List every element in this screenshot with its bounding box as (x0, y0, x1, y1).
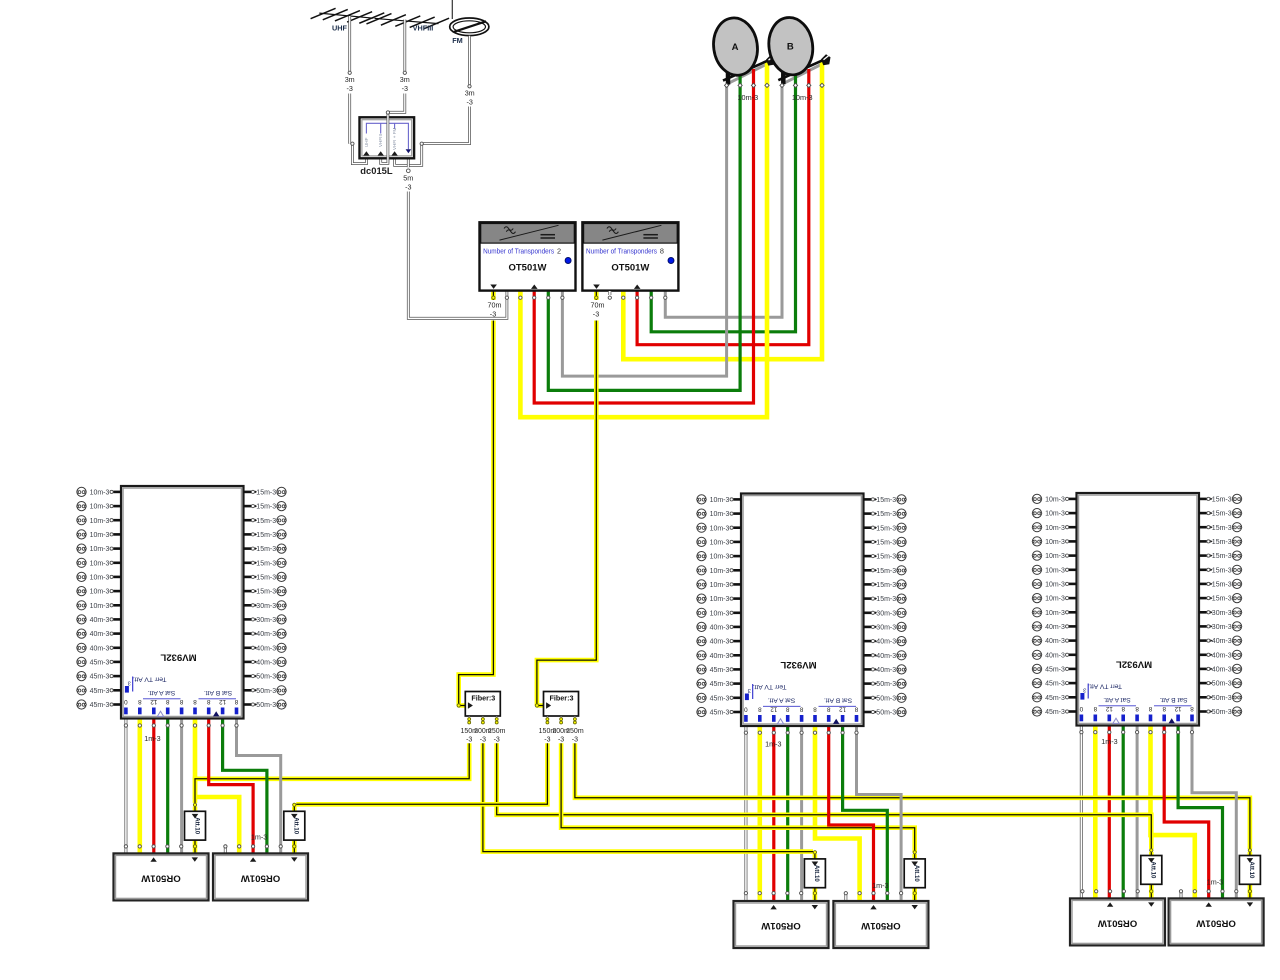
svg-text:FM: FM (452, 36, 463, 45)
connectors at Fiber:3 inputs (457, 704, 460, 707)
wire yellow MV3 p6 to OR6 (1151, 726, 1195, 899)
stub OT2 terr input (unused) (608, 291, 611, 295)
wire dish A yellow to OT1 (520, 62, 767, 417)
wire grey MV1 p9 to OR2 (237, 719, 281, 854)
attenuator Att.10 #6 (1239, 856, 1260, 885)
connectors at OR4 top (844, 892, 847, 895)
svg-text:B: B (787, 42, 794, 53)
wire VHFIII mast + 3m cable to dc015L (403, 20, 406, 72)
wire dish B green to OT2 (651, 74, 795, 332)
wire yellow MV2 p6 to OR4 (815, 726, 860, 901)
connectors at dc015L (351, 142, 354, 145)
optical receiver OR501W #2 (213, 853, 308, 900)
svg-text:70m: 70m (488, 301, 502, 310)
antenna UHF (319, 13, 373, 18)
connectors at OR1 top (124, 845, 127, 848)
svg-text:VHFIII: VHFIII (413, 24, 434, 33)
svg-text:5m: 5m (403, 174, 413, 183)
antenna VHFIII (375, 18, 439, 23)
wire sat yellow MV->OR (1093, 726, 1098, 899)
satellite dish A (726, 70, 731, 85)
connectors at Att.10 in/out (193, 803, 196, 806)
wire sat red MV->OR (1108, 726, 1111, 899)
wire sat grey MV->OR (180, 719, 183, 854)
wire grey MV3 p9 to OR6 (1192, 726, 1236, 899)
fiber OT2 output to Fiber:3 #2 (537, 291, 596, 706)
svg-text:70m: 70m (591, 301, 605, 310)
svg-text:8: 8 (660, 247, 664, 256)
connectors at OR2 top (224, 845, 227, 848)
svg-text:1m-3: 1m-3 (1207, 877, 1223, 886)
attenuator Att.10 #3 (804, 859, 825, 888)
wire UHF mast + 3m cable to dc015L (348, 16, 351, 71)
svg-text:3m: 3m (400, 75, 410, 84)
fiber 250m Fiber#2 out3 to Att.10 #6 (OR6) (575, 743, 1250, 849)
fiber 200m Fiber#1 out2 to Att.10 #3 (OR3) (483, 743, 813, 851)
svg-text:2: 2 (557, 247, 561, 256)
fiber OT1 output to Fiber:3 #1 (459, 291, 494, 706)
wire red MV1 p7 to OR2 (209, 719, 253, 854)
svg-text:-3: -3 (593, 310, 599, 319)
attenuator Att.10 #4 (904, 859, 925, 888)
wire dish A grey to OT1 (562, 63, 769, 376)
optical receiver OR501W #4 (833, 901, 928, 948)
wire dish A green to OT1 (548, 74, 740, 390)
svg-text:-3: -3 (346, 84, 352, 93)
combiner dc015L (360, 117, 415, 158)
fiber 150m Fiber#2 out1 to Att.10 #2 (OR2) (296, 743, 547, 804)
satellite dish B (781, 70, 786, 85)
wire sat grey MV->OR (800, 726, 803, 901)
fiber 200m Fiber#2 out2 to Att.10 #4 (OR4) (561, 743, 915, 852)
wire sat grey MV->OR (1136, 726, 1139, 899)
connectors at OR5 top (1081, 890, 1084, 893)
wire sat red MV->OR (772, 726, 775, 901)
fiber 150m Fiber#1 out1 to Att.10 #1 (OR1) (195, 743, 469, 803)
connectors at OR3 top (744, 892, 747, 895)
attenuator Att.10 #2 (284, 811, 305, 840)
svg-text:UHF: UHF (332, 24, 348, 33)
wire VHFIII through dc015L (over box) (386, 115, 389, 163)
stub OR4 terr (unused) (844, 893, 847, 901)
wire dish B yellow to OT2 (623, 62, 822, 359)
svg-text:dc015L: dc015L (360, 165, 393, 176)
wire green MV3 p8 to OR6 (1178, 726, 1222, 899)
wire sat yellow MV->OR (138, 719, 143, 854)
wire dish B grey to OT2 (665, 63, 824, 317)
wire red MV2 p7 to OR4 (829, 726, 874, 901)
optical transmitter OT501W #1 (480, 222, 576, 290)
multiswitch MV932L #3 (1032, 493, 1242, 726)
svg-text:3m: 3m (465, 89, 475, 98)
svg-text:VHFIII: VHFIII (378, 134, 383, 147)
svg-text:1m-3: 1m-3 (872, 881, 888, 890)
attenuator Att.10 #1 (185, 811, 206, 840)
wire sat green MV->OR (166, 719, 169, 854)
svg-text:UHF: UHF (364, 137, 369, 147)
svg-text:-3: -3 (405, 183, 411, 192)
attenuator Att.10 #5 (1141, 856, 1162, 885)
svg-text:-3: -3 (402, 84, 408, 93)
stub OR2 terr (unused) (224, 846, 227, 853)
fiber 250m Fiber#1 out3 to Att.10 #5 (OR5) (497, 743, 1152, 849)
wire sat yellow MV->OR (757, 726, 762, 901)
svg-text:10m-3: 10m-3 (737, 93, 758, 102)
wire green MV1 p8 to OR2 (223, 719, 267, 854)
multiswitch MV932L #2 (697, 494, 907, 727)
optical receiver OR501W #3 (734, 901, 829, 948)
wire dish A red to OT1 (534, 69, 753, 403)
optical splitter Fiber:3 #1 (460, 692, 505, 744)
svg-text:-3: -3 (490, 310, 496, 319)
wire dish B red to OT2 (637, 69, 809, 345)
wire grey MV2 p9 to OR4 (857, 726, 902, 901)
optical receiver OR501W #6 (1169, 898, 1264, 945)
connectors at OT2 ports (595, 296, 598, 299)
svg-text:VHFI + FM: VHFI + FM (392, 127, 397, 150)
wire green MV2 p8 to OR4 (843, 726, 888, 901)
wire 5m cable dc015L to OT1 terr input (408, 159, 507, 319)
svg-text:1m-3: 1m-3 (144, 734, 160, 743)
svg-text:1m-3: 1m-3 (1101, 737, 1117, 746)
stub OR6 terr (unused) (1179, 891, 1182, 898)
wire terr white MV->OR (744, 726, 747, 901)
optical transmitter OT501W #2 (582, 222, 678, 290)
svg-text:3m: 3m (345, 75, 355, 84)
connectors at MV2 bottom ports (744, 731, 747, 734)
wire terr white MV->OR (1080, 726, 1083, 899)
connectors at MV1 bottom ports (124, 724, 127, 727)
connectors at OR6 top (1179, 890, 1182, 893)
wire red MV3 p7 to OR6 (1164, 726, 1209, 899)
svg-text:1m-3: 1m-3 (765, 740, 781, 749)
connectors at antenna cable ends (348, 71, 351, 74)
dish A cable connectors (diamonds) (724, 83, 728, 87)
svg-text:A: A (732, 42, 739, 53)
wire sat green MV->OR (1122, 726, 1125, 899)
svg-text:1m-3: 1m-3 (251, 832, 267, 841)
wire yellow MV1 p6 to OR2 (195, 719, 239, 854)
optical receiver OR501W #5 (1070, 898, 1165, 945)
multiswitch MV932L #1 (77, 486, 287, 719)
wire sat green MV->OR (786, 726, 789, 901)
connectors at OT1 ports (492, 296, 495, 299)
optical splitter Fiber:3 #2 (539, 692, 584, 744)
wire FM 3m cable to dc015L (468, 36, 471, 85)
optical receiver OR501W #1 (114, 853, 209, 900)
wire terr white MV->OR (124, 719, 127, 854)
connectors at MV3 bottom ports (1080, 731, 1083, 734)
svg-text:-3: -3 (466, 98, 472, 107)
wire sat red MV->OR (152, 719, 155, 854)
dish B cable connectors (diamonds) (780, 83, 784, 87)
antenna FM (451, 0, 453, 19)
svg-text:10m-3: 10m-3 (792, 93, 813, 102)
